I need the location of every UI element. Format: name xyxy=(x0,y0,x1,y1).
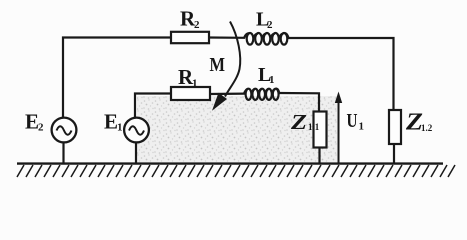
label R1 xyxy=(178,65,198,90)
inductor L1 xyxy=(244,89,279,100)
wire outer top xyxy=(63,38,394,118)
wire inner top xyxy=(135,93,319,117)
svg-text:E: E xyxy=(104,110,118,134)
wire Z12 to ground xyxy=(393,144,395,164)
label E1 xyxy=(104,110,123,134)
source E2 xyxy=(52,118,77,143)
voltage arrow U1 xyxy=(335,92,342,164)
inductor L2 xyxy=(244,33,289,45)
svg-text:Z: Z xyxy=(290,110,307,134)
svg-text:M: M xyxy=(210,54,226,76)
svg-text:2: 2 xyxy=(194,19,200,31)
label L1 xyxy=(258,64,275,86)
svg-text:U: U xyxy=(347,110,358,132)
wire E2 to ground xyxy=(62,143,64,165)
svg-text:1.1: 1.1 xyxy=(308,122,320,132)
mutual coupling M arrow xyxy=(212,22,240,111)
label E2 xyxy=(25,110,44,134)
shaded region xyxy=(137,96,337,162)
wire ZL1 to ground xyxy=(318,148,320,165)
ground xyxy=(17,164,455,177)
label ZL1 xyxy=(290,110,320,134)
label U1 xyxy=(347,110,365,133)
svg-text:E: E xyxy=(25,110,39,134)
resistor R1 xyxy=(171,87,210,100)
svg-text:2: 2 xyxy=(38,122,44,134)
resistor R2 xyxy=(171,32,209,43)
svg-text:1: 1 xyxy=(269,74,275,86)
svg-text:1: 1 xyxy=(192,78,198,90)
svg-text:2: 2 xyxy=(267,19,273,31)
source E1 xyxy=(124,118,149,143)
svg-text:1: 1 xyxy=(117,122,123,134)
label L2 xyxy=(256,9,273,32)
svg-text:1: 1 xyxy=(359,121,365,133)
svg-text:1.2: 1.2 xyxy=(421,123,433,133)
impedance ZL1 xyxy=(314,112,327,148)
label R2 xyxy=(180,7,200,32)
impedance Z12 xyxy=(389,110,401,144)
wire E1 to ground xyxy=(135,143,137,165)
label M xyxy=(210,54,226,76)
label Z12 xyxy=(405,110,433,136)
